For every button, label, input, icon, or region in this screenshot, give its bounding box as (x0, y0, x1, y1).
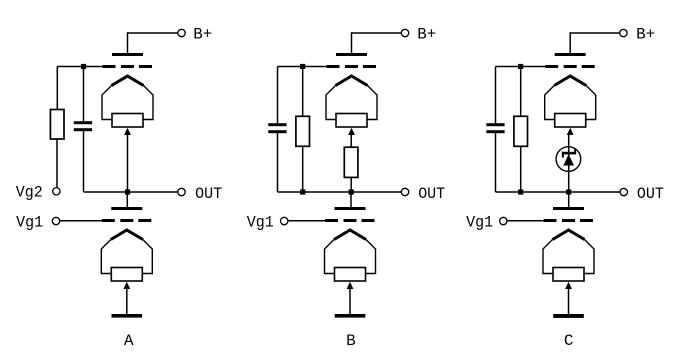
upper triode (circuit C) filament box (555, 114, 586, 128)
lower triode (circuit C) plate (553, 207, 584, 210)
wire: B+ feed (circuit B) (352, 32, 402, 53)
lower triode (circuit A) filament arrow (123, 282, 130, 289)
terminal OUT (circuit C) (620, 185, 664, 203)
lower triode (circuit A) filament box (111, 268, 142, 282)
upper triode (circuit C) cathode (chevron) (545, 76, 596, 120)
terminal Vg1 (circuit A) (16, 213, 60, 231)
capacitor C1 (circuit C) (486, 123, 504, 133)
upper triode (circuit B) filament arrow (348, 128, 355, 135)
resistor Rg leads (circuit C) (520, 67, 522, 193)
lower triode (circuit B) filament box (335, 268, 366, 282)
upper triode (circuit B) grid (dashed) (327, 65, 377, 68)
upper triode (circuit B) cathode (chevron) (326, 76, 377, 120)
svg-text:B+: B+ (193, 25, 212, 43)
upper triode (circuit A) filament box (112, 114, 143, 128)
capacitor C1 (circuit B) (268, 123, 286, 133)
wire: Vg1 to lower grid (circuit A) (60, 220, 102, 222)
terminal Vg2 (circuit A) (16, 183, 60, 201)
svg-text:OUT: OUT (637, 185, 664, 203)
capacitor C1 leads (circuit B) (277, 67, 279, 193)
wire: B+ feed (circuit A) (128, 32, 178, 53)
upper triode (circuit B) filament box (336, 114, 367, 128)
wire: OUT node to lower plate (circuit C) (568, 192, 570, 208)
wire: OUT line (circuit C) (496, 191, 621, 193)
terminal Vg1 (circuit C) (466, 213, 507, 231)
wire: OUT line (circuit A) (84, 191, 178, 193)
upper triode (circuit A) cathode (chevron) (102, 76, 153, 120)
lower triode (circuit C) cathode (chevron) (543, 230, 594, 274)
terminal B+ (circuit C) (620, 25, 655, 43)
lower triode (circuit B) plate (335, 207, 366, 210)
lower triode (circuit C) grid (dashed) (544, 219, 594, 222)
zener diode D1 (circuit C) (556, 147, 581, 172)
lower triode (circuit C) filament arrow (565, 282, 572, 289)
upper triode (circuit B) plate (336, 53, 367, 56)
lower triode (circuit C) filament box (553, 268, 584, 282)
wire: B+ feed (circuit C) (570, 32, 620, 53)
ground bar (circuit A) (112, 314, 143, 318)
svg-text:B: B (346, 332, 356, 350)
svg-text:OUT: OUT (195, 185, 222, 203)
lower triode (circuit B) filament arrow (347, 282, 354, 289)
junction: Rg bottom on OUT line (circuit C) (518, 189, 523, 194)
ground bar (circuit B) (335, 314, 366, 318)
wire: lower cathode to ground bar (circuit C) (568, 289, 570, 315)
terminal OUT (circuit A) (178, 185, 222, 203)
svg-text:OUT: OUT (418, 185, 445, 203)
svg-text:B+: B+ (417, 25, 436, 43)
junction: grid resistor tap (circuit B) (300, 64, 305, 69)
junction: cathode node on OUT line (circuit B) (349, 189, 354, 194)
upper triode (circuit A) grid (dashed) (103, 65, 153, 68)
wire: upper cathode to Rk (circuit B) (350, 135, 352, 148)
wire: OUT node to lower plate (circuit A) (126, 192, 128, 208)
junction: Rg bottom on OUT line (circuit B) (300, 189, 305, 194)
capacitor C1 leads (circuit A) (83, 67, 85, 193)
lower triode (circuit A) grid (dashed) (102, 219, 152, 222)
svg-text:A: A (124, 332, 134, 350)
upper triode (circuit C) grid (dashed) (545, 65, 595, 68)
svg-text:B+: B+ (636, 25, 655, 43)
upper triode (circuit A) plate (112, 53, 143, 56)
terminal OUT (circuit B) (401, 185, 445, 203)
resistor Rg leads (circuit B) (302, 67, 304, 193)
wire: upper cathode through zener to OUT node (circuit C) (568, 135, 570, 192)
terminal B+ (circuit A) (178, 25, 212, 43)
wire: Vg1 to lower grid (circuit B) (288, 220, 325, 222)
terminal Vg1 (circuit B) (247, 213, 288, 231)
wire: Vg1 to lower grid (circuit C) (507, 220, 544, 222)
upper triode (circuit C) filament arrow (567, 128, 574, 135)
wire: lower cathode to ground bar (circuit A) (126, 289, 128, 315)
svg-text:Vg2: Vg2 (16, 183, 43, 201)
resistor Rk cathode resistor (circuit B) (344, 147, 358, 177)
wire: grid to bias network (circuit C) (496, 66, 546, 68)
svg-text:Vg1: Vg1 (16, 213, 43, 231)
wire: OUT node to lower plate (circuit B) (350, 192, 352, 208)
ground bar (circuit C) (553, 314, 584, 318)
junction: capacitor tap on grid line (circuit A) (81, 64, 86, 69)
svg-text:Vg1: Vg1 (247, 213, 274, 231)
wire: grid to bias network (circuit A) (57, 66, 102, 68)
junction: grid resistor tap (circuit C) (518, 64, 523, 69)
lower triode (circuit B) cathode (chevron) (325, 230, 376, 274)
lower triode (circuit A) cathode (chevron) (101, 230, 152, 274)
wire: OUT line (circuit B) (278, 191, 402, 193)
upper triode (circuit C) plate (555, 53, 586, 56)
wire: grid to bias network (circuit B) (278, 66, 327, 68)
upper triode (circuit A) filament arrow (124, 128, 131, 135)
svg-text:Vg1: Vg1 (466, 213, 493, 231)
resistor Rg (circuit B) (296, 116, 310, 146)
lower triode (circuit A) plate (111, 207, 142, 210)
svg-text:C: C (564, 332, 574, 350)
wire: Rk to OUT node (circuit B) (350, 177, 352, 192)
junction: cathode node on OUT line (circuit C) (566, 189, 571, 194)
resistor Rg2 (circuit A) (50, 110, 64, 140)
wire: lower cathode to ground bar (circuit B) (349, 289, 351, 315)
junction: cathode/plate node on OUT line (circuit A) (125, 189, 130, 194)
terminal B+ (circuit B) (401, 25, 436, 43)
lower triode (circuit B) grid (dashed) (325, 219, 375, 222)
resistor Rg2 leads (circuit A) (56, 67, 58, 188)
wire: upper cathode to OUT node (circuit A) (127, 135, 129, 192)
capacitor C1 (circuit A) (74, 121, 92, 131)
capacitor C1 leads (circuit C) (495, 67, 497, 193)
resistor Rg (circuit C) (514, 116, 528, 146)
